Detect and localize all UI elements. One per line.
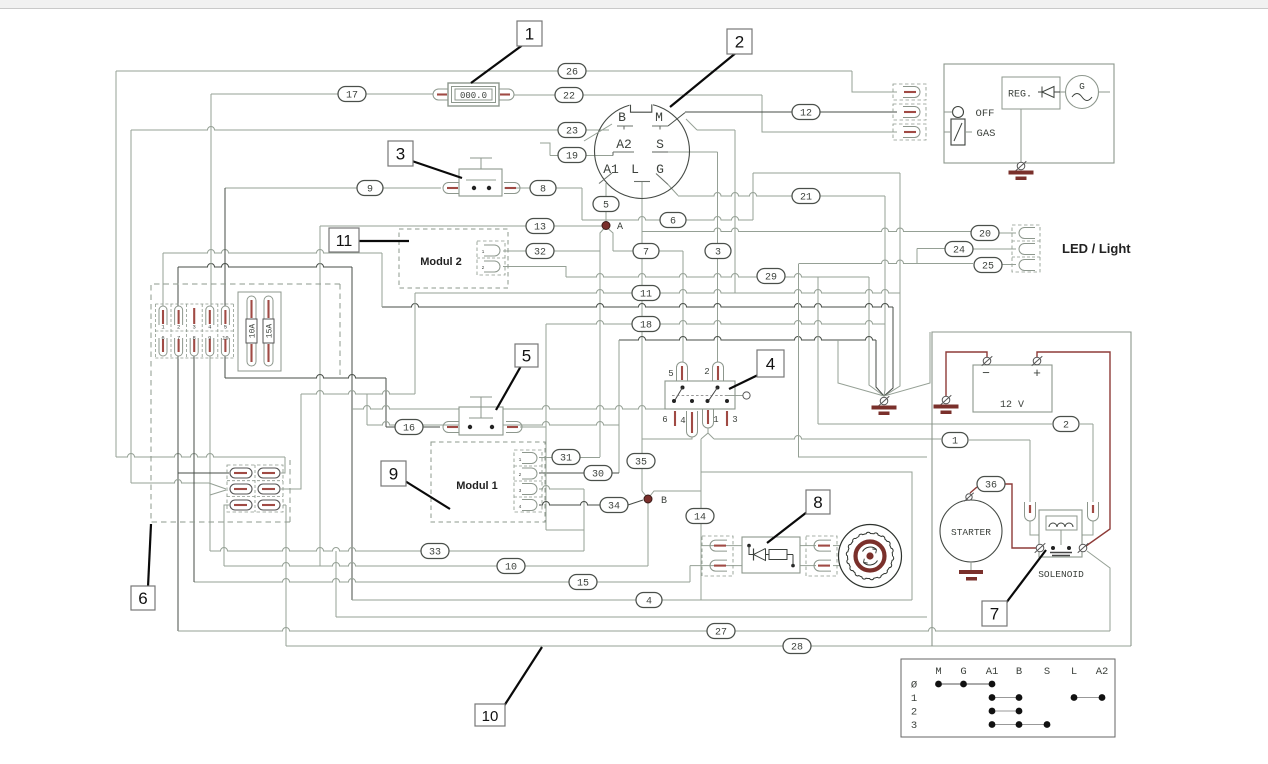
wire node B to 14 riser [650, 491, 701, 496]
svg-text:STARTER: STARTER [951, 527, 991, 538]
connector X1 pin 4 [206, 306, 214, 331]
svg-text:11: 11 [336, 233, 353, 250]
wire loop top y457 right [798, 456, 927, 458]
svg-text:17: 17 [346, 90, 358, 101]
svg-text:B: B [618, 110, 626, 125]
wire tag 9 [357, 181, 383, 196]
connector X1 pin 6 [159, 334, 167, 356]
wire tag 11 [632, 286, 660, 301]
svg-text:11: 11 [640, 289, 652, 300]
connector X2 pin R3 [258, 500, 280, 510]
svg-text:G: G [960, 666, 966, 678]
svg-text:A1: A1 [986, 666, 999, 678]
svg-text:G: G [1079, 81, 1085, 92]
wire pin2 top [177, 267, 179, 306]
wire bus y617 [336, 551, 927, 617]
svg-text:SOLENOID: SOLENOID [1038, 569, 1084, 580]
svg-text:5: 5 [522, 347, 531, 366]
svg-text:12 V: 12 V [1000, 400, 1024, 411]
svg-text:−: − [982, 366, 990, 381]
label 6 [131, 524, 155, 610]
wire node A diag right [608, 229, 613, 252]
wire 21 corner down to ground [884, 196, 885, 396]
wire bus y253 [163, 250, 382, 253]
engine connector lug 2 [893, 104, 926, 120]
wire tag 22 [555, 88, 583, 103]
wire tag 12 [792, 105, 820, 120]
svg-text:4: 4 [766, 355, 775, 374]
svg-text:3: 3 [396, 145, 405, 164]
LED lug 25 [1019, 260, 1035, 271]
wire funnel leg x930 [884, 332, 930, 396]
terminal M [652, 110, 668, 130]
equipment frame box [932, 332, 1131, 646]
svg-text:Modul 2: Modul 2 [420, 256, 462, 268]
wire 6pin row3 right stub [283, 504, 286, 506]
wire Modul1 pin2 to 30 [539, 472, 619, 474]
ignition switch U2 body [595, 97, 690, 199]
svg-text:M: M [935, 666, 941, 678]
svg-text:15: 15 [577, 578, 589, 589]
wire riser x900 to ground [884, 173, 900, 396]
terminal G [656, 162, 668, 185]
ground main funnel [872, 396, 897, 415]
wire bus y340 [619, 337, 884, 397]
svg-text:1: 1 [482, 249, 485, 255]
wire bus 32 (y251) [503, 250, 600, 252]
connector X4 pin 4 [680, 411, 697, 437]
wire tag 24 [945, 242, 973, 257]
Modul 2 connector [477, 241, 505, 275]
wire riser x753 [753, 173, 900, 220]
connector X2 pin L1 [230, 468, 252, 478]
svg-text:7: 7 [643, 247, 649, 258]
wire tag 23 [558, 123, 586, 138]
label LED / Light [1062, 241, 1131, 256]
wire tag 28 [783, 639, 811, 654]
label 7 [982, 550, 1046, 626]
wire Modul1 pin1 to 31 [539, 457, 600, 459]
svg-text:2: 2 [177, 324, 180, 331]
svg-text:3: 3 [715, 247, 721, 258]
wire 22 meter to engine connector [514, 95, 897, 132]
svg-text:5: 5 [603, 200, 609, 211]
solenoid lug left [1025, 502, 1036, 521]
svg-text:6: 6 [138, 589, 147, 608]
svg-text:B: B [661, 496, 667, 507]
terminal A2 [613, 137, 634, 156]
svg-text:10: 10 [482, 708, 499, 725]
wire vertical x131 [130, 130, 132, 483]
wire G to 21 [668, 185, 885, 197]
diode connector right [806, 536, 837, 576]
wire node A diag left [600, 229, 604, 458]
svg-text:29: 29 [765, 272, 777, 283]
svg-text:6: 6 [662, 415, 667, 425]
ground battery [934, 395, 959, 414]
Modul 2 pin 2 lug [482, 261, 500, 272]
wire stub 19 [540, 143, 613, 156]
connector X2 pin R1 [258, 468, 280, 478]
LED lug 20 [1019, 228, 1035, 239]
svg-text:2: 2 [1063, 420, 1069, 431]
Modul 2 box [399, 229, 508, 288]
switch S5 body [459, 397, 503, 435]
wire M to 12 to engine [668, 112, 897, 126]
wire 6pin row1 right link [281, 472, 285, 474]
wire tag 15 [569, 575, 597, 590]
svg-text:Modul 1: Modul 1 [456, 480, 498, 492]
wire vertical x367 [366, 394, 368, 425]
Modul 1 pin 3 lug [519, 484, 537, 495]
starter body [940, 500, 1002, 562]
wire tag 13 [526, 219, 554, 234]
wire tag 27 [707, 624, 735, 639]
connector X4 pin 3 [727, 411, 738, 426]
svg-text:34: 34 [608, 501, 620, 512]
wire bus 27 (y631) [178, 356, 1110, 631]
wire riser x818 (bus 29 to 2) [817, 277, 819, 424]
connector X2 pin L2 [230, 484, 252, 494]
label 9 [381, 461, 450, 509]
svg-text:1: 1 [525, 25, 534, 44]
wire 6pin row1 left [178, 472, 229, 474]
wire pin5 top [224, 188, 226, 306]
svg-text:19: 19 [566, 151, 578, 162]
Modul 1 pin 1 lug [519, 453, 537, 464]
svg-text:22: 22 [563, 91, 575, 102]
wire Modul1 pin4 to 34 [539, 500, 643, 505]
wire tag 35 [627, 454, 655, 469]
Modul 2 pin 1 lug [482, 245, 500, 256]
wire flywheel entry [840, 546, 846, 566]
wire tag 29 [757, 269, 785, 284]
engine ground [1009, 161, 1034, 180]
wire tag 5 [593, 197, 619, 212]
wire 6pin row2 right riser [281, 394, 301, 489]
svg-text:S: S [656, 137, 664, 152]
solenoid body [1039, 510, 1082, 557]
svg-text:L: L [631, 162, 639, 177]
wire riser x798 (y263 to loop) [798, 264, 800, 458]
svg-text:10A: 10A [249, 324, 258, 339]
svg-text:28: 28 [791, 642, 803, 653]
wire 6pin row3 left down [224, 505, 229, 566]
svg-text:21: 21 [800, 192, 812, 203]
connector X1 pin 8 [190, 334, 198, 356]
wire tag 20 [971, 226, 999, 241]
wire 9 to switch S3 [225, 187, 441, 189]
connector X1 pin 2 [175, 306, 183, 331]
switch S5 lug left [443, 422, 459, 433]
wire tag 10 [497, 559, 525, 574]
label 2 [670, 29, 752, 107]
connector X1 pin 5 [221, 306, 229, 331]
wire bus y425 [367, 422, 619, 426]
wire lug to solenoid left [1030, 521, 1039, 535]
svg-text:REG.: REG. [1008, 90, 1032, 101]
wire S down through 3 [668, 152, 718, 362]
wire bus y409 [352, 406, 665, 410]
svg-text:6: 6 [161, 334, 164, 341]
wire pin4 top [210, 94, 212, 306]
node B [644, 495, 667, 507]
svg-text:L: L [1071, 666, 1077, 678]
wire tag 33 [421, 544, 449, 559]
wire bus 4 (y600) [352, 599, 912, 601]
svg-text:1: 1 [952, 436, 958, 447]
svg-text:000.0: 000.0 [460, 91, 487, 101]
wire tag 18 [632, 317, 660, 332]
dashed harness box [151, 284, 340, 522]
wire pin10 down [224, 356, 226, 378]
svg-text:20: 20 [979, 229, 991, 240]
wire tag 21 [792, 189, 820, 204]
switch S5 lug right [506, 422, 522, 433]
wire bus 2 (y424) [818, 424, 1093, 502]
connector X2 pin R2 [258, 484, 280, 494]
wire tag 7 [633, 244, 659, 259]
regulator ground wire [1020, 109, 1022, 163]
label 10 [475, 647, 542, 726]
starter ground [959, 562, 983, 581]
connector X4 pin 6 [662, 411, 675, 426]
battery terminal plus [1032, 356, 1043, 366]
wire bus 20 (lighting y231.5) [642, 228, 1016, 233]
wire tag 16 [395, 420, 423, 435]
svg-text:A1: A1 [603, 162, 619, 177]
svg-text:9: 9 [389, 465, 398, 484]
wire 23 diagonal into B [584, 124, 612, 141]
generator G [1060, 76, 1110, 109]
wire tag 4 [636, 593, 662, 608]
table switch positions [901, 659, 1115, 737]
svg-text:2: 2 [704, 367, 709, 377]
wire 17 to meter [211, 93, 433, 95]
svg-text:9: 9 [208, 334, 211, 341]
svg-text:14: 14 [694, 512, 706, 523]
wire switch S5 right [520, 426, 546, 428]
wire bus 10 (y566) [224, 563, 648, 567]
connector X1 pin 7 [175, 334, 183, 356]
connector X4 pin 1 [703, 409, 719, 428]
wire funnel leg x838 [838, 340, 884, 396]
svg-text:36: 36 [985, 480, 997, 491]
wire bus y267 [178, 264, 352, 267]
solenoid lug right [1088, 502, 1099, 521]
wire bus 26 (top frame to engine connector) [116, 71, 897, 92]
engine GAS [944, 119, 995, 145]
wire bus y394 [301, 391, 415, 394]
wire 7 to connector X4 pin5 [613, 248, 683, 363]
svg-text:23: 23 [566, 126, 578, 137]
wire riser x701 (conn4 to magneto box) [700, 439, 702, 600]
wire vertical x382 [381, 253, 383, 307]
wire tag 32 [526, 244, 554, 259]
solenoid terminal left [1035, 543, 1046, 553]
diode connector left [702, 536, 733, 576]
node A [602, 222, 623, 234]
fuse F2 15A [263, 296, 275, 366]
wire L terminal chain [642, 182, 646, 497]
svg-text:18: 18 [640, 320, 652, 331]
wire pin1 top [162, 253, 164, 306]
wire 36 red link [970, 484, 1036, 548]
wire vertical x320 from node A bus [319, 226, 321, 566]
wire bus 29 from module 2 [503, 267, 884, 397]
svg-text:7: 7 [177, 334, 180, 341]
svg-text:31: 31 [560, 453, 572, 464]
svg-text:3: 3 [732, 415, 737, 425]
terminal B [617, 110, 633, 130]
svg-text:5: 5 [224, 324, 227, 331]
svg-text:A2: A2 [1096, 666, 1109, 678]
svg-text:2: 2 [735, 33, 744, 52]
engine connector lug 1 [893, 84, 926, 100]
LED connector box [1012, 225, 1040, 272]
flywheel magneto [839, 525, 902, 588]
connector X1 pin 3 [193, 308, 196, 331]
svg-text:8: 8 [540, 184, 546, 195]
label 8 [767, 490, 830, 543]
svg-text:25: 25 [982, 261, 994, 272]
wire 24 branch [917, 249, 1016, 264]
connector X1 pin 10 [221, 334, 229, 356]
svg-text:16: 16 [403, 423, 415, 434]
svg-text:13: 13 [534, 222, 546, 233]
meter M1 display 000.0 [448, 83, 499, 106]
svg-text:10: 10 [222, 334, 229, 341]
label 1 [471, 21, 542, 83]
diode module body [742, 537, 800, 573]
svg-text:8: 8 [193, 334, 196, 341]
wire tag 31 [552, 450, 580, 465]
svg-text:S: S [1044, 666, 1050, 678]
engine connector lug 3 [893, 124, 926, 140]
terminal S [652, 137, 668, 152]
svg-text:2: 2 [519, 472, 522, 478]
wire tag 19 [558, 148, 586, 163]
terminal A1 [599, 162, 619, 184]
wire left frame x116 [116, 71, 285, 473]
svg-text:+: + [1033, 366, 1041, 381]
wire tag 25 [974, 258, 1002, 273]
fuse F1 10A [246, 296, 258, 366]
svg-text:2: 2 [911, 707, 917, 719]
wire tag 34 [600, 498, 628, 513]
switch S3 lug right [504, 183, 520, 194]
wire magneto loop box [701, 472, 912, 600]
svg-text:1: 1 [713, 415, 718, 425]
connector X1 grid [155, 304, 233, 358]
wire bus 33 (y551) [210, 548, 584, 552]
Modul 1 pin 4 lug [519, 500, 537, 511]
svg-text:2: 2 [482, 265, 485, 271]
engine OFF [944, 107, 994, 121]
wire tag 30 [584, 466, 612, 481]
wire bus y307 [382, 304, 893, 397]
label 11 [329, 228, 409, 252]
svg-text:33: 33 [429, 547, 441, 558]
connector X4 pin 5 [668, 362, 687, 381]
wire battery plus red [1037, 352, 1110, 546]
wire junction y483 [131, 480, 226, 496]
Modul 1 pin 2 lug [519, 468, 537, 479]
label 4 [729, 350, 784, 389]
label SOLENOID [1038, 569, 1084, 580]
wire node B down to bus 10 [647, 502, 649, 566]
svg-text:LED / Light: LED / Light [1062, 241, 1131, 256]
wire diode row bottom (y565.6) [690, 566, 840, 582]
meter lug right [499, 89, 514, 100]
wire A1 to node A [605, 183, 607, 222]
svg-text:1: 1 [161, 324, 165, 331]
connector X4 pin 2 [704, 362, 723, 381]
connector X4 contacts [672, 386, 750, 404]
wire tag 1 [942, 433, 968, 448]
wire node A bus 13 [320, 225, 603, 227]
wire solenoid to bus 28 [1087, 551, 1110, 631]
wire 35 link (conn4 pin4) [642, 437, 692, 439]
connector X2 pin L3 [230, 500, 252, 510]
wire 25 bus (y263) [799, 260, 1016, 264]
svg-text:4: 4 [646, 596, 652, 607]
svg-text:26: 26 [566, 67, 578, 78]
svg-text:4: 4 [680, 416, 685, 426]
connector X1 pin 1 [159, 306, 167, 331]
wire tag 26 [558, 64, 586, 79]
wire tag 14 [686, 509, 714, 524]
wire conn4 pin1 split [701, 428, 714, 439]
svg-text:1: 1 [911, 693, 917, 705]
regulator REG [1002, 77, 1060, 109]
Modul 1 box [431, 442, 545, 522]
meter lug left [433, 89, 448, 100]
svg-text:27: 27 [715, 627, 727, 638]
svg-text:OFF: OFF [976, 108, 995, 120]
wire tag 36 [977, 477, 1005, 492]
svg-text:4: 4 [208, 324, 212, 331]
wire bus 16 (y378) [225, 375, 440, 427]
svg-text:35: 35 [635, 457, 647, 468]
wire lug to solenoid right [1082, 521, 1093, 535]
svg-text:30: 30 [592, 469, 604, 480]
wire bus 28 (y646) [286, 505, 1131, 646]
switch S3 lug left [443, 183, 459, 194]
wire tag 2 [1053, 417, 1079, 432]
svg-text:3: 3 [193, 324, 196, 331]
svg-text:M: M [655, 110, 663, 125]
svg-text:A2: A2 [616, 137, 632, 152]
wire pin9 down [209, 356, 211, 551]
wire tag 6 [660, 213, 686, 228]
starter terminal [964, 493, 973, 501]
svg-text:3: 3 [911, 720, 917, 732]
svg-text:24: 24 [953, 245, 965, 256]
wire vertical x352 [351, 267, 353, 600]
wire bus 6 (y220) [582, 217, 753, 220]
battery 12V [973, 365, 1052, 412]
svg-text:6: 6 [670, 216, 676, 227]
svg-text:4: 4 [519, 504, 522, 510]
connector X2 grid [227, 465, 283, 512]
label 3 [388, 141, 462, 178]
svg-text:9: 9 [367, 184, 373, 195]
wire Modul1 pin3 loop [539, 324, 584, 551]
svg-text:GAS: GAS [977, 128, 996, 140]
connector X1 pin 9 [206, 334, 214, 356]
svg-text:Ø: Ø [911, 680, 917, 692]
